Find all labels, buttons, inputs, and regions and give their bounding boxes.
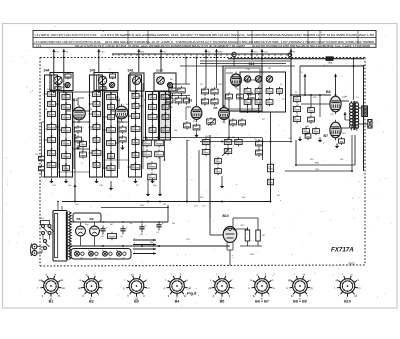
svg-text:B7: B7 xyxy=(324,134,329,138)
wire out v3 xyxy=(319,94,321,117)
output transformer S12 xyxy=(342,97,359,131)
svg-text:R12: R12 xyxy=(155,152,158,154)
svg-text:R7: R7 xyxy=(107,141,109,143)
svg-text:C40: C40 xyxy=(133,140,136,142)
wire AF drop xyxy=(186,140,188,202)
dashed chassis border xyxy=(40,58,365,267)
resistor R1 xyxy=(36,154,45,163)
svg-text:B3: B3 xyxy=(134,299,139,303)
ground B7 cathode xyxy=(335,144,339,149)
mains plug xyxy=(31,244,41,257)
wire det drop xyxy=(270,112,272,202)
wire arrow P2a xyxy=(160,49,168,72)
svg-text:68k: 68k xyxy=(162,95,165,97)
ground AF-2 xyxy=(158,192,162,197)
resistor R40 xyxy=(267,162,273,173)
dial lamps box xyxy=(71,249,131,260)
svg-text:68k: 68k xyxy=(132,165,135,167)
wire out v0 xyxy=(290,94,292,140)
resistor R46 xyxy=(293,105,300,114)
tube B1 label xyxy=(73,98,77,102)
svg-text:C40: C40 xyxy=(194,126,197,128)
svg-text:C64: C64 xyxy=(303,129,306,131)
wire gang drop xyxy=(261,59,263,66)
tone network group xyxy=(143,139,164,182)
wire osc int2 xyxy=(243,79,258,81)
HT supply bus xyxy=(228,58,364,60)
power transformer S11 xyxy=(53,206,71,261)
svg-text:FX717A: FX717A xyxy=(331,246,354,253)
svg-text:10k: 10k xyxy=(148,175,151,177)
svg-text:220: 220 xyxy=(132,127,135,129)
svg-text:C40: C40 xyxy=(48,151,51,153)
tube B7 label xyxy=(324,134,329,138)
wire out v1 xyxy=(299,66,301,96)
svg-text:10k: 10k xyxy=(340,159,343,161)
heater wire arrow 4 xyxy=(133,251,156,255)
smoothing cap C82 xyxy=(139,224,147,237)
rectifier tube B9 xyxy=(90,222,100,246)
junction xyxy=(270,201,272,203)
wire spk b xyxy=(359,123,368,125)
resistor R9 xyxy=(119,135,126,143)
svg-text:2n2: 2n2 xyxy=(203,150,206,152)
junction xyxy=(159,201,161,203)
svg-text:R44: R44 xyxy=(143,141,146,143)
wire IF tie 5 xyxy=(58,171,90,173)
tube B6 label xyxy=(326,90,331,94)
svg-text:68k: 68k xyxy=(90,129,93,131)
svg-text:C71: C71 xyxy=(202,206,205,208)
resistor R49 xyxy=(339,137,345,145)
svg-text:R12: R12 xyxy=(150,128,153,130)
tube socket B2 xyxy=(78,273,104,303)
ground AF-1 xyxy=(146,192,150,197)
wire AVC drop xyxy=(209,135,211,218)
svg-text:B10: B10 xyxy=(344,299,351,303)
wire gang v1 xyxy=(228,99,230,138)
tuning block S44 frame xyxy=(50,73,73,91)
wire B3 col xyxy=(186,107,191,120)
wire arrow S10 xyxy=(251,49,259,59)
wire eye top loop a xyxy=(233,218,258,227)
wire eye top loop b xyxy=(236,229,248,230)
tuning block S42 frame xyxy=(130,73,144,91)
wire arrow P1a xyxy=(52,49,60,74)
svg-text:C64: C64 xyxy=(202,90,205,92)
svg-text:25: 25 xyxy=(294,107,296,109)
rectifier label box xyxy=(73,213,101,222)
resistor R57 xyxy=(241,225,250,246)
svg-text:m: m xyxy=(303,273,305,276)
svg-text:B10: B10 xyxy=(223,214,229,218)
tube socket B5 xyxy=(209,273,236,303)
wire AF g2 xyxy=(159,157,161,192)
svg-text:50p: 50p xyxy=(94,163,97,165)
tuning block S43 label xyxy=(90,69,96,73)
tube B4 xyxy=(231,72,242,89)
svg-text:1M: 1M xyxy=(172,223,175,225)
tube B6 xyxy=(330,94,341,115)
dial frame line 1 xyxy=(180,61,295,66)
HT rail top xyxy=(71,221,168,223)
trimmer C1 xyxy=(54,76,62,84)
svg-text:68k: 68k xyxy=(108,115,111,117)
svg-text:2x: 2x xyxy=(74,250,76,252)
wire eye feed xyxy=(210,135,223,235)
wire osc int1 xyxy=(226,72,233,74)
svg-text:1M: 1M xyxy=(256,100,259,102)
wire B7 plate xyxy=(341,127,349,129)
wire out v2 xyxy=(310,94,312,107)
svg-text:68k: 68k xyxy=(94,138,97,140)
wire IF tie 4 xyxy=(144,99,146,101)
wire mid bus 1 xyxy=(200,137,262,139)
coil box S44 column 2 xyxy=(58,92,74,177)
svg-text:C64: C64 xyxy=(140,234,143,236)
resistor R58 xyxy=(256,227,265,246)
svg-text:C9: C9 xyxy=(239,121,241,123)
header parts table xyxy=(33,31,376,49)
tube socket B4 xyxy=(164,273,192,303)
svg-text:10k: 10k xyxy=(226,95,229,97)
svg-text:68k: 68k xyxy=(62,105,65,107)
svg-text:R44: R44 xyxy=(277,89,280,91)
svg-text:911 a7 4,7a75 2U 79 P .1 08.42: 911 a7 4,7a75 2U 79 P .1 08.42 .R7 45-8 … xyxy=(75,45,246,48)
wire transformer top xyxy=(57,201,59,206)
wire eye bottom loop xyxy=(240,227,262,246)
wire down det xyxy=(270,186,272,202)
svg-text:68k: 68k xyxy=(62,87,65,89)
junction xyxy=(186,201,188,203)
wire HT up xyxy=(167,205,169,222)
svg-text:68k: 68k xyxy=(150,242,153,244)
svg-text:1M: 1M xyxy=(203,140,206,142)
arrow B7 supply xyxy=(334,74,337,96)
svg-text:0.1: 0.1 xyxy=(256,142,259,144)
svg-text:10k: 10k xyxy=(93,112,96,114)
svg-text:2n2: 2n2 xyxy=(268,180,271,182)
svg-text:1M: 1M xyxy=(262,235,265,237)
svg-text:R33: R33 xyxy=(212,100,215,102)
ground rail wire xyxy=(62,201,271,203)
svg-text:R12: R12 xyxy=(133,153,136,155)
resistor R2 xyxy=(38,165,44,173)
smoothing cap C81 xyxy=(120,226,128,239)
heater wire arrow 3 xyxy=(133,247,156,251)
capacitor C35 xyxy=(184,121,191,129)
svg-text:B5: B5 xyxy=(214,106,218,110)
svg-text:X1: X1 xyxy=(108,257,110,259)
svg-text:C31: C31 xyxy=(101,236,104,238)
coil box S107 xyxy=(160,92,173,141)
wire eye bottom xyxy=(227,242,233,250)
svg-text:220: 220 xyxy=(48,102,51,104)
svg-text:S42: S42 xyxy=(128,69,134,73)
svg-text:C64: C64 xyxy=(169,89,172,91)
svg-text:68k: 68k xyxy=(245,89,248,91)
svg-text:m: m xyxy=(54,273,56,276)
ground out1 xyxy=(298,137,302,142)
tuning block S107 frame xyxy=(154,73,176,91)
tube B2 xyxy=(115,104,128,122)
svg-text:0.1: 0.1 xyxy=(48,125,51,127)
resistor R27 xyxy=(239,118,246,126)
svg-text:5p: 5p xyxy=(184,124,186,126)
wire B1 plate xyxy=(85,110,90,112)
svg-text:2x: 2x xyxy=(116,250,118,252)
tube socket B3 xyxy=(123,273,150,303)
svg-text:R12: R12 xyxy=(48,163,51,165)
svg-text:C40: C40 xyxy=(149,105,152,107)
right inner bus wire xyxy=(363,66,365,171)
wire eye drop xyxy=(230,250,234,266)
trimmer C2 xyxy=(65,82,70,87)
coupling capacitor C20 xyxy=(80,150,87,159)
ground S44-1 xyxy=(49,179,53,184)
trimmer C45 xyxy=(244,76,250,82)
sheet number 7603 xyxy=(348,262,355,266)
wire mid bus 2 xyxy=(200,141,290,143)
wire S44 link2 xyxy=(42,171,45,177)
wire osc drop 2 xyxy=(216,58,218,89)
dial gang frame xyxy=(240,72,286,112)
svg-text:220: 220 xyxy=(225,140,228,142)
resistor R18 xyxy=(193,123,200,131)
svg-text:1 8 4: 1 8 4 xyxy=(36,46,42,48)
feedback wire 4 xyxy=(285,169,352,171)
capacitor C70 xyxy=(194,150,205,208)
svg-text:82k: 82k xyxy=(163,115,166,117)
svg-text:C70: C70 xyxy=(194,206,197,208)
svg-text:50p: 50p xyxy=(75,138,78,140)
dial cord line xyxy=(112,54,292,56)
svg-text:R12: R12 xyxy=(80,142,83,144)
tube B5 label xyxy=(214,106,218,110)
dial pulley xyxy=(232,52,236,66)
svg-text:2n2: 2n2 xyxy=(48,92,51,94)
wire left drop xyxy=(74,135,77,202)
tube socket B6 + B7 xyxy=(249,273,276,303)
wire arrow S2 xyxy=(205,49,211,58)
wire S43 down xyxy=(110,181,112,186)
model number FX717A xyxy=(331,246,354,253)
svg-text:68k: 68k xyxy=(163,105,166,107)
feedback wire 2 xyxy=(296,163,355,166)
svg-text:X1: X1 xyxy=(80,257,82,259)
svg-text:B8: B8 xyxy=(77,217,81,221)
svg-text:X1: X1 xyxy=(94,257,96,259)
tube socket B8 + B9 xyxy=(287,273,314,303)
svg-text:C9: C9 xyxy=(256,89,258,91)
wire osc drop 1 xyxy=(205,58,207,89)
wire arrow S26 xyxy=(137,49,145,72)
switch S6a xyxy=(326,57,333,65)
svg-text:R44: R44 xyxy=(202,100,205,102)
svg-text:68k: 68k xyxy=(178,89,181,91)
loudspeaker terminal strip xyxy=(362,106,368,117)
smoothing cap C83 xyxy=(156,222,164,235)
svg-text:10k: 10k xyxy=(132,114,135,116)
gang cap C53 xyxy=(266,98,273,106)
tuning block S107 label xyxy=(156,69,163,73)
resistor R36 xyxy=(215,157,222,165)
svg-text:V, 8 S SaM5 3S - PW22 4 8757 3: V, 8 S SaM5 3S - PW22 4 8757 3-A00 a 0-M… xyxy=(35,33,97,37)
padder C43 xyxy=(249,92,256,100)
svg-text:R33: R33 xyxy=(148,164,151,166)
svg-text:1M: 1M xyxy=(268,68,271,70)
svg-text:C18: C18 xyxy=(267,89,270,91)
volume pot R26 xyxy=(207,117,216,126)
junction HT b xyxy=(102,245,160,247)
svg-text:B1: B1 xyxy=(49,299,54,303)
wire R37 down xyxy=(221,176,223,184)
capacitor C61 xyxy=(308,106,315,114)
svg-text:2 K 75 ,98W6W V 5PaM57 KURT8 ,: 2 K 75 ,98W6W V 5PaM57 KURT8 , K AMP- 5U… xyxy=(35,40,101,44)
tube B3 xyxy=(191,104,202,122)
heater wire arrow 1 xyxy=(133,238,156,242)
svg-text:68k: 68k xyxy=(107,95,110,97)
svg-text:2n2: 2n2 xyxy=(268,166,271,168)
ground S44-2 xyxy=(64,179,68,184)
svg-text:S44: S44 xyxy=(44,69,50,73)
tube socket B1 xyxy=(38,273,66,303)
resistor R37 xyxy=(215,167,222,175)
voltage selector xyxy=(41,218,50,225)
svg-text:68k: 68k xyxy=(215,169,218,171)
svg-text:m: m xyxy=(148,287,150,290)
ground S42-2 xyxy=(150,179,154,184)
svg-text:C64: C64 xyxy=(143,152,146,154)
HT rail bottom xyxy=(67,245,230,247)
svg-text:C40: C40 xyxy=(215,159,218,161)
tube B5 xyxy=(219,105,230,122)
svg-text:B6 + B7: B6 + B7 xyxy=(255,299,269,303)
tuning block S43 frame xyxy=(94,73,118,91)
svg-text:50p: 50p xyxy=(267,100,270,102)
wire junction dots xyxy=(53,57,365,247)
capacitor C39 xyxy=(211,97,218,105)
svg-text:0.1: 0.1 xyxy=(62,154,65,156)
tube socket B10 xyxy=(334,273,361,303)
junction xyxy=(221,201,223,203)
svg-text:m: m xyxy=(272,279,274,282)
tube B1 xyxy=(73,105,86,123)
ground S42-1 xyxy=(133,179,137,184)
loudspeaker xyxy=(368,120,372,129)
svg-text:0.1: 0.1 xyxy=(120,128,123,130)
junction HT a xyxy=(102,221,160,223)
svg-text:B5: B5 xyxy=(220,299,225,303)
wire arrow C13 xyxy=(97,49,105,72)
wire arrow C44 xyxy=(261,49,269,59)
capacitor C63 xyxy=(303,127,310,135)
wire out right xyxy=(351,135,353,171)
svg-text:C64: C64 xyxy=(48,138,51,140)
ground B3 xyxy=(194,133,198,138)
svg-text:25: 25 xyxy=(176,99,178,101)
trimmer C46 xyxy=(255,76,261,82)
tuning block S44 label xyxy=(44,69,50,73)
svg-text:B1: B1 xyxy=(73,98,77,102)
svg-text:5p: 5p xyxy=(235,140,237,142)
capacitor C58 xyxy=(267,177,273,186)
screen supply wire xyxy=(300,65,364,67)
trimmer C47 xyxy=(266,76,272,82)
svg-text:82k: 82k xyxy=(62,141,65,143)
heater wire arrow 2 xyxy=(133,242,156,246)
wire B2 grid xyxy=(110,110,115,112)
svg-text:C64: C64 xyxy=(63,166,66,168)
wire IF tie 7 xyxy=(160,137,200,139)
svg-text:2x: 2x xyxy=(88,250,90,252)
svg-text:5p: 5p xyxy=(294,117,296,119)
svg-text:0.1: 0.1 xyxy=(157,232,160,234)
svg-text:82k: 82k xyxy=(184,99,187,101)
svg-text:R57: R57 xyxy=(241,225,244,227)
resistor R22 xyxy=(211,87,218,95)
svg-text:81T1 4M0 S8a 4,W7 01W4R 5A- 1V: 81T1 4M0 S8a 4,W7 01W4R 5A- 1V 2T .A1M5.… xyxy=(105,40,374,44)
svg-text:C40: C40 xyxy=(94,102,97,104)
svg-text:10k: 10k xyxy=(39,167,42,169)
gang cap C50a xyxy=(266,87,273,95)
wire IF tie 6 xyxy=(105,159,129,161)
svg-text:1M: 1M xyxy=(149,115,152,117)
capacitor C16 xyxy=(100,86,106,91)
svg-text:R12: R12 xyxy=(93,151,96,153)
wire det drop2 xyxy=(262,138,264,161)
svg-text:X1: X1 xyxy=(122,257,124,259)
wire S43 a xyxy=(98,74,100,92)
ground R37 xyxy=(220,184,224,189)
svg-text:C18: C18 xyxy=(63,95,66,97)
capacitor C11 xyxy=(74,125,81,133)
svg-text:m: m xyxy=(351,273,353,276)
figure label xyxy=(187,291,197,296)
wire M1 head xyxy=(185,58,187,85)
wire IF tie 1 xyxy=(58,91,94,93)
gang cap C51 xyxy=(244,98,251,106)
wire IF drop xyxy=(290,49,292,96)
svg-text:W 2aT787 972 R9R1,M 2387 K58 5: W 2aT787 972 R9R1,M 2387 K58 5aa 45U11 5… xyxy=(252,45,371,48)
capacitor C54 xyxy=(230,118,237,126)
svg-text:50p: 50p xyxy=(245,100,248,102)
wire arrow C36 xyxy=(215,49,223,58)
cathode resistor R48 xyxy=(305,132,311,140)
gang cap C48 xyxy=(244,87,251,95)
trimmer C24 xyxy=(133,77,141,85)
choke R60 xyxy=(108,232,117,241)
coil box S43 column 2 xyxy=(103,92,119,177)
padder C42 xyxy=(237,92,244,100)
resistor R21 xyxy=(201,87,208,95)
resistor cluster R14 R15 C31 xyxy=(166,86,189,105)
resistor R5 xyxy=(74,135,81,143)
oscillator box frame xyxy=(223,66,262,111)
junction xyxy=(74,201,76,203)
resistor R47 xyxy=(293,115,300,124)
tuning block S42 label xyxy=(128,69,134,73)
wire M1 bus xyxy=(168,95,190,97)
capacitor C3 xyxy=(65,73,71,79)
svg-text:Fig.8: Fig.8 xyxy=(187,291,197,296)
svg-text:B9: B9 xyxy=(90,217,94,221)
svg-text:R33: R33 xyxy=(62,128,65,130)
pot arrow R35 xyxy=(222,149,229,156)
svg-text:C18: C18 xyxy=(294,97,297,99)
transformer centre tap xyxy=(344,112,352,120)
component value labels xyxy=(44,68,360,256)
